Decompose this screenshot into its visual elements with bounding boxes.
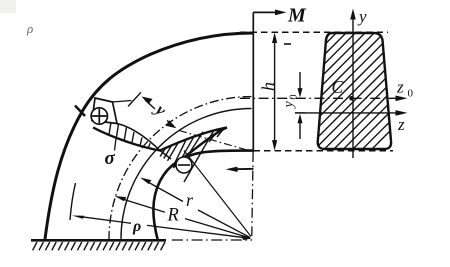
extra fan line from O to section [184, 151, 251, 237]
compression wedge hatching [160, 128, 224, 182]
arrowhead to fiber [142, 97, 153, 105]
tick line at fiber [128, 92, 141, 106]
scan artifact gray box [0, 0, 16, 13]
horizontal dash-dot centerline through O [172, 239, 252, 241]
top dashed projection line [240, 31, 388, 33]
minus circle [176, 157, 192, 173]
svg-text:h: h [258, 82, 278, 91]
section hatching [300, 0, 450, 160]
y axis of section [350, 9, 356, 159]
stress curve (bold): under square through X rising to leaf tip [93, 128, 227, 151]
fiber thin arc (rho fiber) [70, 183, 76, 220]
leaf lower edge [173, 128, 227, 168]
ground hatching [33, 242, 165, 250]
svg-text:z: z [397, 115, 405, 134]
shaft [145, 100, 174, 126]
bold stub outside outer arc [75, 106, 85, 117]
short tick at z level [295, 112, 305, 114]
tension wedge hatching [109, 122, 150, 148]
svg-text:r: r [186, 190, 194, 210]
svg-text:ρ: ρ [26, 21, 33, 36]
section baseline (thin): quad bottom edge extended to neutral point X [117, 124, 171, 160]
couple arrow at section (pointing left) [226, 167, 254, 172]
outer arc (bold) [45, 33, 253, 239]
svg-text:y: y [282, 101, 297, 110]
svg-text:σ: σ [105, 148, 116, 169]
svg-text:ρ: ρ [132, 218, 141, 235]
plus-square element (fiber element at outer edge) [92, 98, 117, 124]
svg-text:z: z [396, 78, 404, 97]
cross-section trapezoid (hatched) [300, 0, 450, 160]
fan convergence arrowhead at O [242, 235, 252, 240]
svg-text:y: y [357, 7, 367, 26]
svg-text:0: 0 [408, 88, 414, 100]
plus circle [91, 108, 107, 124]
fiber line extension from square [113, 101, 132, 103]
svg-text:C: C [332, 77, 344, 97]
end face vertical line (solid part) [252, 12, 254, 152]
bottom dashed projection line [254, 150, 394, 152]
y0 label [282, 95, 300, 110]
r radius arrow [140, 178, 250, 238]
R radius arrow [115, 196, 251, 238]
z0 axis (dash-dot through centroid) [240, 96, 408, 102]
svg-text:R: R [167, 206, 179, 226]
arrowhead to neutral [166, 120, 177, 128]
section outline [318, 33, 391, 149]
y0 dimension [295, 72, 305, 139]
sigma leader line [115, 139, 117, 151]
inner arc (bold) [153, 151, 253, 241]
ground line [31, 239, 166, 242]
dash-dot trace from y arrow to inner corner [179, 131, 248, 151]
z axis (neutral) [295, 110, 408, 116]
neutral axis thin arc [121, 109, 252, 241]
stray dash artifact [284, 43, 291, 45]
h dimension [272, 33, 277, 151]
svg-text:M: M [287, 5, 307, 27]
centroid C dot [349, 96, 354, 101]
ground [31, 240, 166, 250]
rho radius arrow [72, 216, 250, 239]
y dimension (along section) [128, 92, 177, 128]
moment M arrow (top) [253, 10, 286, 16]
centroid dash-dot arc [109, 96, 252, 240]
end face dash-dot extension down to O [252, 152, 253, 236]
